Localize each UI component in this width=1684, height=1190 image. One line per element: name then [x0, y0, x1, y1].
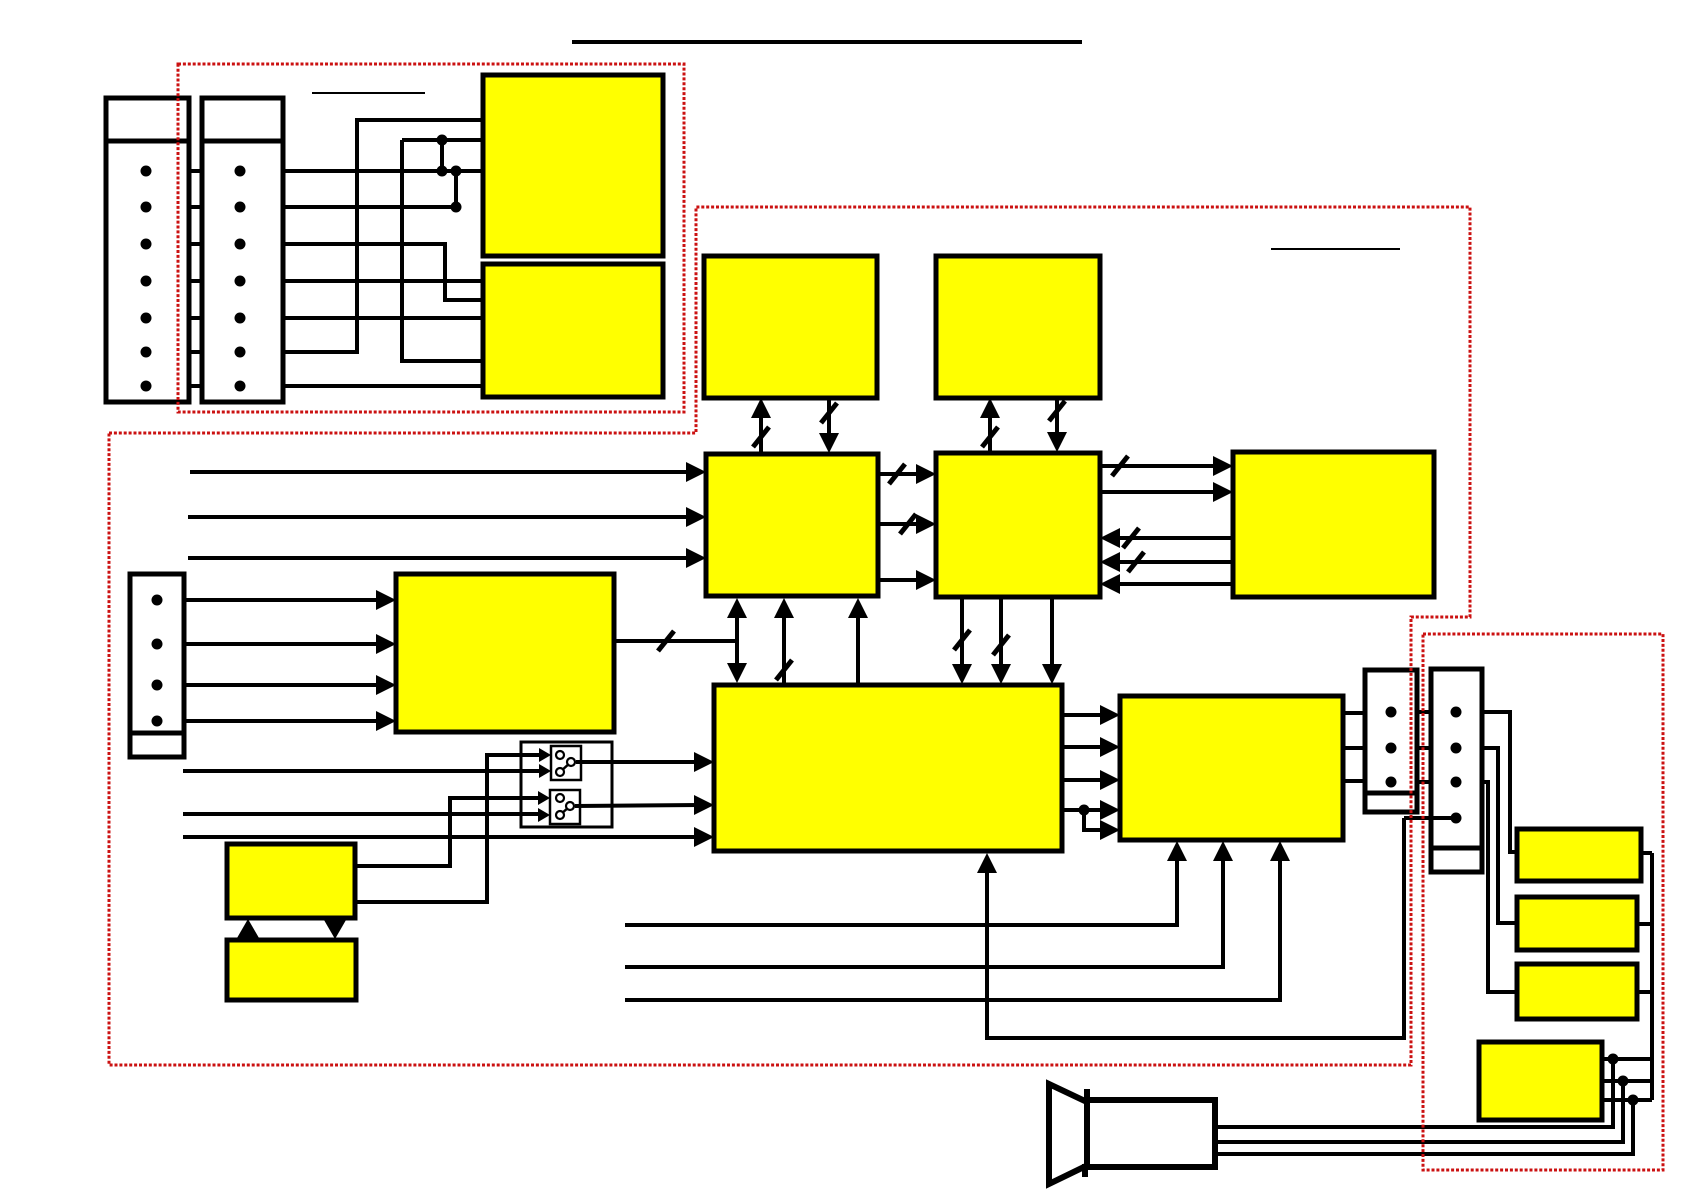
title underline — [572, 40, 1082, 44]
wire J3 pin2 to PIO — [184, 642, 380, 646]
label underline right group — [1271, 248, 1400, 250]
wire M2 down to CPU c — [1050, 597, 1054, 665]
control wire 1 to MMU — [625, 848, 1177, 925]
wire J5 pin4 feedback — [1404, 816, 1456, 820]
red dotted group outline 1 — [178, 64, 684, 412]
block M3 (middle right yellow box) — [1233, 452, 1434, 597]
wire block A pin y140 — [402, 138, 483, 142]
wire M2 up to D — [988, 404, 992, 453]
wire CPU to MMU b — [1062, 745, 1106, 749]
wire row7 to block B — [283, 384, 483, 388]
wire row1 to block A — [283, 169, 483, 173]
wire J4 to J5 stubs — [1417, 710, 1431, 714]
connector J4 — [1365, 670, 1417, 812]
block F (small yellow box below E) — [227, 940, 356, 1000]
wire row3 to block B — [283, 244, 483, 300]
block CPU (large center yellow box) — [714, 685, 1062, 851]
wire F up to E — [237, 919, 259, 938]
wire M2 to M3 a — [1100, 464, 1217, 468]
block S2 (right small yellow box 2) — [1517, 897, 1637, 950]
wire from E to switch2 in1 — [355, 798, 539, 866]
wire switch1 out to CPU — [576, 760, 700, 764]
wire stubs J1-J2 — [187, 169, 204, 173]
wire AMP out1 — [1602, 1057, 1652, 1061]
wire row6 to block A — [283, 120, 483, 352]
wire J3 pin4 to PIO — [184, 719, 380, 723]
wire C down to M1 — [827, 398, 831, 434]
wire CPU up to M1 (b) — [782, 614, 786, 685]
wire J3 pin3 to PIO — [184, 683, 380, 687]
wire J5 pin1 to S1 — [1482, 712, 1517, 852]
label underline top-left group — [312, 92, 425, 94]
wire S2 to bus — [1637, 922, 1652, 926]
junction dots row1 — [437, 166, 448, 177]
wire M1 to M2 b — [878, 522, 920, 526]
input wire 2 to M1 — [188, 515, 688, 519]
speaker horn — [1087, 1100, 1215, 1167]
wire M1 to M2 c — [878, 578, 920, 582]
red dotted group outline 3 (bottom-right) — [1423, 634, 1663, 1170]
wire M3 to M2 c — [1116, 582, 1233, 586]
block AMP (bottom-right yellow box) — [1479, 1042, 1602, 1120]
block A (top-left upper yellow box) — [483, 75, 663, 256]
wire J5 pin3 to S3 — [1482, 782, 1517, 992]
wire long direct to CPU — [183, 835, 700, 839]
wire speaker 3 — [1215, 1100, 1633, 1154]
wire PIO to vertical bus — [614, 639, 737, 643]
control wire 2 to MMU — [625, 848, 1223, 967]
wire S3 to bus — [1637, 990, 1652, 994]
connector J1 — [106, 98, 189, 402]
wire E down to F — [324, 920, 346, 939]
block S3 (right small yellow box 3) — [1517, 964, 1637, 1019]
wire right vertical bus — [1650, 853, 1654, 1100]
wire MMU to J4 stubs — [1343, 711, 1365, 715]
wire row2 — [283, 205, 456, 209]
wire CPU to MMU a — [1062, 713, 1106, 717]
wire S1 to bus — [1641, 851, 1652, 855]
connector J3 — [130, 574, 184, 757]
block MMU (yellow box right of CPU) — [1120, 696, 1343, 840]
block D (top middle-right yellow box) — [936, 256, 1100, 398]
wire row5 to block B — [283, 316, 483, 320]
red dotted group outline 2 (main) — [109, 207, 1470, 1065]
wire M3 to M2 b — [1116, 560, 1233, 564]
block S1 (right small yellow box 1) — [1517, 829, 1641, 881]
block M1 (middle bus box 1) — [706, 454, 878, 596]
connector J2 — [202, 98, 283, 402]
wire M3 to M2 a — [1116, 536, 1233, 540]
connector J5 — [1431, 669, 1482, 872]
wire J3 pin1 to PIO — [184, 598, 380, 602]
wire M2 down to CPU b — [999, 597, 1003, 665]
wire CPU up to M1 (c) — [856, 614, 860, 685]
wire vertical tie y140-row1 — [440, 140, 444, 171]
wire AMP out2 — [1602, 1079, 1652, 1083]
block C (top middle-left yellow box) — [704, 256, 877, 398]
wire row4 to block B — [283, 279, 483, 283]
wire AMP out3 — [1602, 1098, 1652, 1102]
wire from E top to switch1 in1 — [355, 755, 540, 902]
wire M1-CPU bidirectional — [735, 614, 739, 669]
wire M1 up to C — [759, 404, 763, 454]
block PIO (left yellow box) — [396, 574, 614, 732]
control wire 3 to MMU — [625, 848, 1280, 1000]
wire CPU to MMU c — [1062, 778, 1106, 782]
wire M2 down to CPU a — [960, 597, 964, 665]
wire A-B shared net — [402, 140, 483, 361]
block M2 (middle bus box 2) — [936, 453, 1100, 597]
wire switch2 out to CPU — [575, 805, 700, 806]
wire J5 pin2 to S2 — [1482, 748, 1517, 923]
wire vertical row1-row2 tie — [454, 171, 458, 207]
input wire 3 to M1 — [188, 556, 688, 560]
wire speaker 1 — [1215, 1059, 1613, 1127]
wire M2 to M3 b — [1100, 490, 1217, 494]
wire long to switch2 in2 — [183, 812, 539, 816]
wire CPU to MMU d with branch — [1062, 808, 1106, 812]
wire M1 to M2 a — [878, 472, 920, 476]
wire speaker 2 — [1215, 1081, 1623, 1142]
input wire 1 to M1 — [190, 470, 688, 474]
block E (small yellow box) — [227, 844, 355, 918]
wire feedback to CPU bottom — [987, 818, 1404, 1038]
switch block (mux with SPDT symbols) — [521, 742, 612, 827]
block B (top-left lower yellow box) — [483, 264, 663, 397]
wire long to switch1 in2 — [183, 769, 540, 773]
wire D down to M2 — [1055, 398, 1059, 433]
